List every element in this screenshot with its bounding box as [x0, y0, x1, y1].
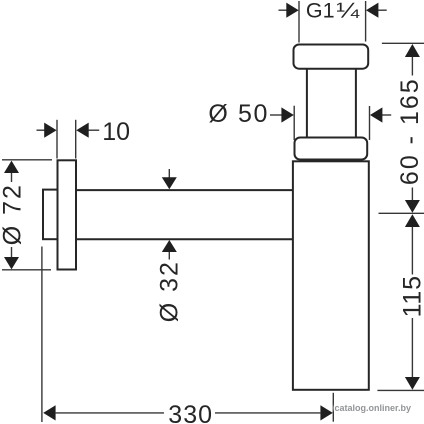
dim line segment above mid tick 60-165	[411, 188, 413, 201]
svg-text:G1: G1	[306, 0, 335, 23]
top extension line for dia 72	[2, 159, 52, 161]
extension line right for dia 50	[369, 106, 371, 140]
tail wire of 10 left arrow	[37, 129, 46, 131]
wall flange plate	[58, 160, 77, 269]
dim line segment below top arrow 60-165	[411, 57, 413, 76]
arrow left-pointing 330	[43, 405, 55, 420]
arrow down-pointing 115 bottom	[405, 377, 420, 390]
arrow up-pointing 115 top	[405, 214, 420, 227]
arrow right-pointing 10	[44, 123, 56, 138]
bottom extension line for dia 72	[2, 269, 51, 271]
dim line left segment 330	[56, 412, 164, 414]
svg-text:115: 115	[399, 275, 424, 317]
tailpiece pipe right wall	[355, 69, 357, 138]
tail wire of right G1 1/4 arrow	[378, 9, 387, 11]
tail wire of dia32 top arrow	[168, 169, 170, 178]
tail wire of left G1 1/4 arrow	[279, 9, 288, 11]
dim line right segment 330	[215, 412, 320, 414]
arrow right-pointing 330	[320, 405, 332, 420]
bottom extension line for 115	[377, 389, 424, 391]
dim line segment above bottom arrow 115	[411, 318, 413, 378]
tail wire of dia50 right arrow	[382, 114, 391, 116]
arrow left-pointing 10	[76, 123, 88, 138]
arrow right-pointing G1 1/4 left	[286, 3, 298, 18]
horizontal pipe bottom wall	[77, 238, 293, 240]
svg-text:10: 10	[102, 118, 130, 146]
horizontal pipe top wall	[77, 189, 293, 191]
extension line right of G1 1/4	[365, 1, 367, 42]
wall pipe stub	[43, 190, 58, 240]
dim line upper segment dia 72	[11, 173, 13, 182]
dim line segment below mid tick 115	[411, 227, 413, 275]
dim line lower segment dia 72	[11, 247, 13, 258]
top extension line for 60-165	[382, 42, 424, 44]
arrow down-pointing dia 32	[162, 177, 177, 189]
tail wire of dia32 bottom arrow	[168, 251, 170, 260]
arrow up-pointing 60-165 top	[405, 44, 420, 57]
svg-text:Ø 32: Ø 32	[155, 260, 183, 322]
tailpiece pipe left wall	[306, 69, 308, 138]
arrow left-pointing dia 50	[370, 107, 382, 122]
arrow down-pointing 60-165 bottom	[405, 200, 420, 213]
extension line right for 10	[75, 120, 77, 159]
left extension line for 330	[41, 247, 43, 423]
label 60 - 165 rotated	[396, 77, 424, 185]
extension line left of G1 1/4	[298, 1, 300, 43]
arrow up-pointing dia 32	[162, 240, 177, 252]
svg-text:¼: ¼	[336, 0, 359, 23]
svg-text:330: 330	[168, 401, 213, 424]
arrow left-pointing G1 1/4 right	[366, 3, 378, 18]
arrow down-pointing dia 72	[4, 257, 19, 269]
watermark catalog.onliner.by	[335, 403, 412, 413]
lower nut of tailpiece	[295, 138, 368, 160]
svg-text:Ø 50: Ø 50	[208, 100, 269, 128]
extension line left for 10	[56, 120, 58, 159]
label dia 72 rotated	[0, 183, 26, 245]
top nut of tailpiece	[294, 45, 369, 69]
arrow right-pointing dia 50	[281, 107, 293, 122]
tail wire of 10 right arrow	[88, 129, 99, 131]
svg-text:Ø 72: Ø 72	[0, 183, 26, 245]
svg-text:60 - 165: 60 - 165	[396, 77, 424, 185]
right extension line for 330	[332, 393, 334, 422]
trap body	[293, 161, 369, 389]
tail wire of dia50 left arrow	[270, 114, 282, 116]
arrow up-pointing dia 72	[4, 161, 19, 173]
middle tick line for 60-165 / 115	[379, 212, 424, 214]
extension line left for dia 50	[293, 106, 295, 140]
label dia 32 rotated	[155, 260, 183, 322]
label 115 rotated	[399, 275, 424, 317]
